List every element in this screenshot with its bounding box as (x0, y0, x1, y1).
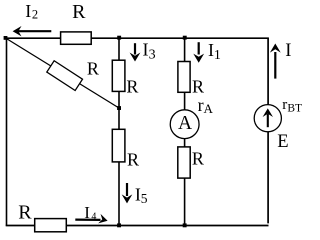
arrow I2 (13, 26, 52, 36)
resistor R bottom (35, 219, 67, 232)
svg-text:R: R (192, 149, 204, 169)
wire middle-left branch (118, 38, 120, 225)
current source E (254, 105, 281, 132)
label I1 (208, 40, 221, 63)
resistor R diagonal (47, 61, 83, 91)
label I5 (135, 184, 148, 206)
label R bottom (18, 201, 32, 223)
svg-text:R: R (126, 77, 138, 97)
svg-text:5: 5 (141, 191, 148, 206)
resistor R middle lower (178, 147, 190, 178)
svg-text:2: 2 (32, 8, 38, 22)
arrow I right (270, 44, 281, 79)
arrow I4 (75, 214, 108, 226)
svg-text:R: R (192, 76, 204, 96)
node junction top-left (4, 36, 8, 40)
svg-text:R: R (127, 150, 139, 170)
resistor R top (61, 32, 92, 44)
label rBT (282, 97, 302, 115)
wire bottom (6, 225, 269, 227)
svg-text:R: R (18, 201, 32, 223)
svg-text:I: I (143, 40, 149, 60)
wire left edge (6, 38, 8, 226)
node junction top at middle branch (183, 36, 187, 40)
svg-text:R: R (87, 59, 99, 79)
resistor R left lower (112, 129, 125, 162)
svg-text:1: 1 (214, 48, 221, 63)
svg-text:BT: BT (287, 103, 302, 115)
label E (277, 132, 288, 152)
label R middle lower (192, 149, 204, 169)
label R middle upper (192, 76, 204, 96)
label I4 (84, 203, 96, 223)
ammeter U1 (170, 110, 199, 139)
wire middle branch (184, 38, 186, 225)
svg-text:3: 3 (149, 48, 156, 63)
node junction bottom at left branch (117, 223, 121, 227)
label I3 (143, 40, 156, 63)
label R left upper (126, 77, 138, 97)
wire right edge (267, 38, 269, 224)
svg-text:E: E (277, 132, 288, 152)
node junction diagonal meets left branch (117, 106, 121, 110)
svg-text:A: A (204, 101, 214, 116)
arrow I3 (130, 43, 141, 61)
arrow I5 (122, 183, 133, 203)
node junction top at left branch (117, 36, 121, 40)
label rA (198, 95, 214, 116)
label I right (285, 41, 291, 61)
svg-text:A: A (178, 113, 192, 134)
label R left lower (127, 150, 139, 170)
label R top (72, 1, 86, 23)
svg-text:I: I (285, 41, 291, 61)
label I2 (25, 1, 38, 22)
wire top (6, 37, 269, 39)
svg-text:4: 4 (91, 211, 96, 222)
svg-text:I: I (25, 1, 31, 21)
resistor R middle upper (178, 62, 190, 93)
node junction bottom at middle branch (183, 223, 187, 227)
svg-text:R: R (72, 1, 86, 23)
svg-text:I: I (84, 203, 90, 222)
resistor R left upper (112, 60, 125, 91)
wire diagonal (6, 38, 120, 108)
arrow I1 (193, 42, 204, 63)
label R diagonal (87, 59, 99, 79)
